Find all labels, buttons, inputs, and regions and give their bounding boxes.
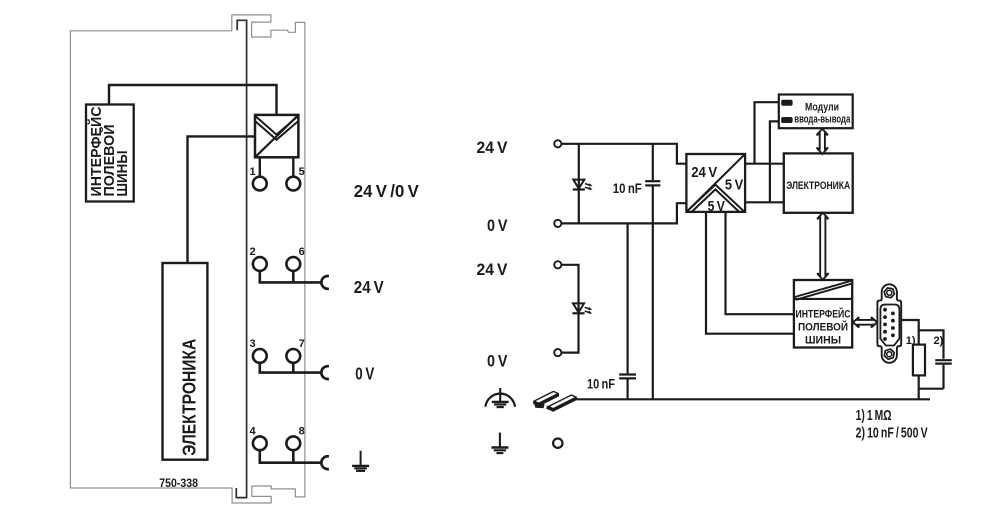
DC-DC converter 24V/5V	[686, 154, 745, 215]
LED D1 branch	[578, 144, 580, 224]
resistor 1) 1 MOhm	[913, 345, 925, 376]
svg-text:24 V: 24 V	[477, 139, 508, 157]
svg-text:3: 3	[249, 338, 255, 350]
svg-text:5: 5	[299, 166, 305, 178]
arrow interface-DB9	[853, 317, 877, 327]
arrow modules-electronics	[817, 129, 828, 154]
rail / shield bus wire	[577, 398, 931, 400]
svg-text:10 nF: 10 nF	[587, 376, 615, 391]
svg-text:ПОЛЕВОЙ: ПОЛЕВОЙ	[798, 321, 848, 334]
svg-text:0 V: 0 V	[487, 217, 508, 235]
terminal 0V supply	[554, 220, 561, 227]
I/O modules box (Модули ввода-вывода)	[779, 95, 853, 129]
wire DB9 to resistor 1)	[899, 320, 919, 345]
LED D2 branch (field supply)	[562, 265, 579, 353]
terminal 0V field	[554, 349, 561, 356]
svg-text:0 V: 0 V	[355, 364, 374, 384]
svg-text:2: 2	[249, 246, 255, 258]
capacitor C1 10nF branch (24V to rail)	[652, 144, 654, 180]
svg-text:ЭЛЕКТРОНИКА: ЭЛЕКТРОНИКА	[786, 180, 850, 192]
svg-text:8: 8	[299, 426, 305, 438]
svg-text:5 V: 5 V	[725, 177, 743, 194]
svg-text:ШИНЫ: ШИНЫ	[805, 335, 841, 347]
contacts 3 / 7 with 0V wire	[253, 349, 267, 363]
bottom connection wires	[918, 375, 920, 399]
DIN rail symbol (3D)	[534, 391, 576, 411]
wires converter to electronics	[745, 163, 784, 165]
svg-text:ввода-вывода: ввода-вывода	[794, 113, 851, 125]
wire fieldbus-interface to power contact	[109, 85, 277, 115]
svg-text:ИНТЕРФЕЙС: ИНТЕРФЕЙС	[796, 308, 851, 321]
terminal 24V field	[554, 261, 561, 268]
svg-text:24 V: 24 V	[691, 164, 717, 181]
fieldbus interface box (ИНТЕРФЕЙС ПОЛЕВОЙ ШИНЫ)	[86, 105, 134, 202]
svg-text:6: 6	[299, 246, 305, 258]
arrow electronics-fieldbus interface	[817, 213, 828, 280]
wire branch to capacitor 2)	[919, 330, 944, 359]
capacitor C2 10nF branch (0V to rail)	[626, 223, 628, 373]
terminal 24V supply	[554, 140, 561, 147]
svg-text:1) 1 MΩ: 1) 1 MΩ	[856, 408, 892, 424]
svg-text:ЭЛЕКТРОНИКА: ЭЛЕКТРОНИКА	[178, 339, 199, 456]
svg-text:2): 2)	[934, 335, 944, 347]
wire electronics to power contact	[188, 136, 256, 263]
terminal (unused, bottom)	[553, 439, 562, 448]
fieldbus interface box right (ИНТЕРФЕЙС ПОЛЕВОЙ ШИНЫ)	[794, 280, 852, 348]
contacts 4 / 8 with earth wire	[253, 436, 267, 450]
electronics box (ЭЛЕКТРОНИКА)	[163, 263, 208, 460]
svg-text:1): 1)	[906, 335, 916, 347]
svg-text:0 V: 0 V	[487, 353, 508, 371]
svg-text:ШИНЫ: ШИНЫ	[114, 151, 131, 197]
electronics box right (ЭЛЕКТРОНИКА)	[784, 153, 853, 212]
contact block separator line	[236, 20, 246, 497]
device outline 750-338 coupler body	[70, 15, 305, 503]
wire branch to I/O modules (lower)	[770, 121, 779, 202]
wire branch to I/O modules (upper)	[755, 102, 779, 164]
plain earth symbol (bottom)	[499, 433, 501, 448]
wires converter to fieldbus interface	[706, 212, 794, 334]
svg-text:24 V: 24 V	[354, 277, 384, 297]
svg-text:750-338: 750-338	[159, 478, 198, 490]
wire 24V supply to DC-DC converter	[562, 144, 687, 164]
power jumper contact symbol	[255, 115, 298, 157]
svg-text:5 V: 5 V	[708, 198, 725, 215]
contacts 1 / 5	[259, 157, 261, 176]
wire 0V supply to DC-DC converter	[562, 203, 687, 223]
DB9 connector	[877, 284, 901, 363]
svg-text:Модули: Модули	[805, 102, 839, 114]
svg-text:1: 1	[249, 166, 255, 178]
contacts 2 / 6 with 24V wire	[253, 257, 267, 271]
svg-text:7: 7	[299, 338, 305, 350]
svg-text:2) 10 nF / 500 V: 2) 10 nF / 500 V	[856, 426, 928, 442]
svg-text:24 V: 24 V	[477, 261, 508, 279]
svg-text:24 V /0 V: 24 V /0 V	[354, 181, 419, 201]
capacitor 2) plates	[935, 359, 952, 361]
earth symbol at contact row 4/8	[360, 451, 362, 466]
PE ground symbol (circled earth)	[485, 394, 515, 407]
svg-text:10 nF: 10 nF	[613, 181, 642, 196]
svg-text:4: 4	[249, 426, 256, 438]
